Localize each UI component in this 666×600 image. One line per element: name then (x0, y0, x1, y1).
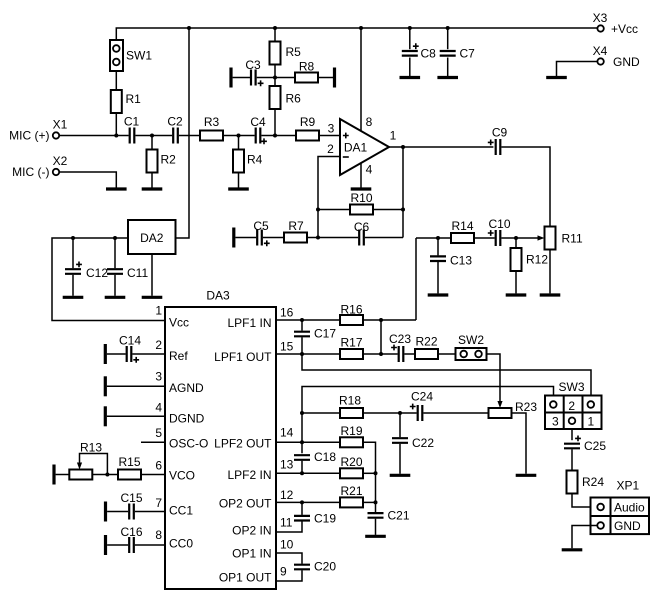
svg-text:OSC-O: OSC-O (169, 437, 208, 451)
wire (363, 442, 376, 512)
voltage regulator DA2 (128, 220, 176, 254)
svg-text:OP2 OUT: OP2 OUT (219, 497, 272, 511)
resistor R19 (340, 424, 363, 448)
junction (300, 318, 304, 322)
DA3 pin 9 label (219, 565, 287, 585)
svg-text:GND: GND (613, 55, 640, 69)
DA1 pin 1 wire (389, 129, 493, 148)
wire DA2 output (52, 238, 165, 321)
svg-text:LPF2 IN: LPF2 IN (227, 468, 271, 482)
resistor R20 (340, 455, 363, 478)
wire (238, 173, 240, 189)
junction (398, 411, 402, 415)
wire (233, 77, 250, 79)
capacitor C10 (488, 217, 511, 246)
resistor R14 (451, 219, 474, 243)
DA3 pin 15 label (214, 340, 294, 365)
svg-text:C24: C24 (411, 390, 433, 404)
ground (506, 293, 527, 296)
wire (365, 237, 403, 239)
svg-text:R12: R12 (526, 253, 548, 267)
R23 wiper arrow (497, 401, 502, 408)
capacitor C17 (294, 327, 336, 341)
resistor R2 (147, 150, 177, 173)
svg-text:GND: GND (614, 519, 641, 533)
svg-text:R2: R2 (161, 153, 177, 167)
wire (318, 209, 350, 211)
resistor R24 (567, 471, 605, 494)
wire (363, 472, 376, 474)
svg-text:VCO: VCO (169, 468, 195, 482)
svg-text:C12: C12 (86, 266, 108, 280)
DA1 pin 2 wire (318, 142, 340, 238)
svg-text:3: 3 (155, 370, 162, 384)
junction (113, 236, 117, 240)
svg-text:+Vcc: +Vcc (611, 22, 638, 36)
svg-text:R15: R15 (118, 455, 140, 469)
resistor R8 (295, 60, 318, 83)
svg-text:2: 2 (155, 338, 162, 352)
wire (263, 237, 284, 239)
capacitor C5 (253, 219, 269, 246)
svg-text:R16: R16 (340, 303, 362, 317)
wire (380, 320, 382, 354)
junction (187, 26, 191, 30)
junction (105, 473, 109, 477)
svg-text:R7: R7 (288, 219, 304, 233)
DA1 pin 4 (361, 163, 373, 189)
wire (399, 413, 401, 437)
terminal bar (104, 535, 107, 555)
capacitor C11 (107, 266, 148, 280)
wire DA2 input (176, 28, 190, 238)
capacitor C25 (564, 436, 606, 454)
DA3 pin 10 label (232, 538, 294, 561)
ground (562, 548, 583, 551)
wire (56, 474, 70, 476)
wire (261, 135, 296, 137)
wire (363, 353, 398, 355)
wire (549, 250, 551, 294)
resistor R9 (296, 115, 319, 141)
wire (363, 412, 417, 414)
svg-text:13: 13 (280, 457, 294, 471)
switch SW2 (456, 333, 487, 360)
svg-text:R11: R11 (562, 232, 583, 246)
svg-text:Vcc: Vcc (169, 315, 189, 329)
svg-text:C22: C22 (412, 436, 434, 450)
svg-text:CC1: CC1 (169, 504, 193, 518)
terminal bar (104, 344, 107, 364)
ground (142, 187, 163, 190)
capacitor C4 (250, 115, 267, 144)
wire (132, 353, 165, 355)
capacitor C2 (167, 115, 183, 144)
svg-text:LPF1 OUT: LPF1 OUT (214, 350, 272, 364)
wire (409, 28, 411, 49)
svg-text:C14: C14 (119, 334, 141, 348)
svg-text:SW3: SW3 (558, 380, 584, 394)
ground (400, 76, 421, 79)
terminal X3 +Vcc (593, 11, 638, 36)
capacitor C20 (294, 559, 336, 573)
svg-text:R13: R13 (80, 441, 102, 455)
wire x=403 vertical (402, 147, 404, 238)
svg-text:X4: X4 (593, 44, 608, 58)
svg-text:4: 4 (366, 163, 373, 177)
svg-text:5: 5 (155, 426, 162, 440)
wire (571, 429, 573, 440)
potentiometer R11 (516, 227, 583, 250)
wire (151, 136, 153, 150)
svg-text:4: 4 (155, 400, 162, 414)
wire (135, 511, 165, 513)
capacitor C19 (294, 512, 336, 526)
wire (274, 65, 276, 87)
wire (515, 238, 517, 248)
op-amp DA1 (340, 119, 389, 175)
svg-text:9: 9 (280, 565, 287, 579)
potentiometer R13 (69, 441, 107, 480)
junction (401, 208, 405, 212)
junction (114, 134, 118, 138)
resistor R1 (111, 90, 141, 113)
wire (557, 62, 598, 77)
svg-text:6: 6 (155, 458, 162, 472)
DA3 pin 4 label (155, 400, 204, 425)
DA3 pin 1 label (155, 304, 189, 330)
capacitor C1 (124, 115, 140, 144)
wire (318, 77, 333, 79)
IC DA3 box (165, 289, 276, 590)
ground (63, 296, 84, 299)
DA1 pin 3 label (328, 122, 335, 136)
ground (142, 296, 163, 299)
svg-text:MIC (-): MIC (-) (12, 165, 49, 179)
junction (300, 411, 304, 415)
wire (276, 501, 340, 503)
svg-text:R1: R1 (126, 92, 142, 106)
ground (228, 187, 249, 190)
junction (436, 236, 440, 240)
svg-text:C5: C5 (253, 219, 269, 233)
wire (404, 353, 415, 355)
junction (273, 76, 277, 80)
svg-text:C13: C13 (450, 254, 472, 268)
resistor R10 (350, 191, 373, 215)
terminal bar (229, 68, 232, 88)
junction (514, 236, 518, 240)
svg-text:14: 14 (280, 426, 294, 440)
svg-text:C2: C2 (167, 115, 183, 129)
svg-text:C3: C3 (245, 58, 261, 72)
svg-text:1: 1 (587, 414, 594, 428)
svg-text:12: 12 (280, 488, 294, 502)
wire (276, 522, 302, 533)
wire (276, 353, 340, 355)
svg-text:C25: C25 (584, 439, 606, 453)
svg-text:DA3: DA3 (206, 289, 230, 303)
svg-text:SW2: SW2 (458, 333, 484, 347)
svg-text:15: 15 (280, 340, 294, 354)
ground (516, 474, 537, 477)
junction (316, 236, 320, 240)
ground (546, 76, 567, 79)
wire SW2 to R23 wiper (487, 354, 501, 402)
wire (501, 147, 550, 227)
DA1 pin 8 (361, 28, 373, 131)
svg-text:X2: X2 (53, 154, 68, 168)
svg-text:R23: R23 (515, 400, 537, 414)
junction (273, 26, 277, 30)
wire (375, 519, 377, 535)
terminal bar (104, 502, 107, 522)
svg-text:R24: R24 (582, 475, 604, 489)
wire (276, 319, 340, 321)
wire (141, 441, 165, 443)
wire (107, 385, 165, 387)
DA3 pin 6 label (155, 458, 195, 482)
wire (107, 544, 128, 546)
wire (135, 544, 165, 546)
DA3 pin 11 label (232, 515, 293, 537)
capacitor C13 (430, 254, 472, 268)
svg-text:3: 3 (552, 414, 559, 428)
wire (301, 461, 303, 474)
svg-text:LPF2 OUT: LPF2 OUT (214, 436, 272, 450)
capacitor C12 (65, 262, 108, 281)
capacitor C21 (368, 509, 410, 523)
resistor R6 (270, 86, 302, 109)
DA3 pin 7 label (155, 496, 193, 518)
capacitor C18 (294, 450, 336, 464)
wire (223, 135, 255, 137)
terminal bar (232, 228, 235, 248)
wire (115, 71, 117, 90)
terminal bar (104, 376, 107, 396)
ground (365, 535, 386, 538)
switch SW1 (110, 40, 152, 71)
svg-text:R6: R6 (286, 92, 302, 106)
capacitor C23 (389, 332, 411, 362)
wire (274, 28, 276, 42)
resistor R16 (340, 303, 363, 326)
resistor R17 (340, 336, 363, 360)
svg-text:C6: C6 (354, 220, 370, 234)
capacitor C8 (402, 43, 436, 60)
resistor R21 (340, 484, 363, 507)
svg-text:X3: X3 (593, 11, 608, 25)
DA3 pin 8 label (155, 528, 193, 551)
potentiometer R23 (489, 400, 538, 418)
terminal X4 GND (593, 44, 640, 69)
wire (301, 502, 303, 515)
wire (141, 474, 165, 476)
wire (515, 271, 517, 293)
svg-text:11: 11 (280, 515, 293, 529)
svg-text:Ref: Ref (169, 349, 188, 363)
wire (423, 412, 488, 414)
svg-text:C20: C20 (314, 559, 336, 573)
wire (276, 472, 340, 474)
svg-text:XP1: XP1 (617, 479, 640, 493)
svg-text:8: 8 (155, 528, 162, 542)
DA3 pin 5 label (155, 426, 208, 451)
resistor R4 (233, 150, 263, 173)
svg-text:LPF1 IN: LPF1 IN (227, 316, 271, 330)
resistor R12 (511, 248, 549, 271)
svg-text:DGND: DGND (169, 412, 205, 426)
wire (399, 444, 401, 474)
capacitor C9 (488, 126, 508, 156)
junction (150, 134, 154, 138)
svg-text:C11: C11 (127, 266, 148, 280)
ground (351, 187, 372, 190)
capacitor C3 (245, 58, 263, 86)
wire (501, 237, 516, 239)
wire (107, 353, 126, 355)
wire (301, 320, 303, 331)
wire (276, 553, 302, 564)
DA3 pin 12 label (219, 488, 294, 511)
junction (300, 440, 304, 444)
wire (235, 237, 256, 239)
wire (438, 353, 456, 355)
wire x=416 vertical (415, 238, 417, 320)
wire (179, 135, 200, 137)
wire LPF1 OUT to SW3 (302, 354, 591, 396)
junction (237, 134, 241, 138)
junction (374, 471, 378, 475)
wire (307, 237, 358, 239)
wire LPF2 OUT to SW3 (302, 387, 554, 454)
wire (319, 135, 340, 137)
ground (428, 293, 449, 296)
wire (107, 415, 165, 417)
wire +Vcc top rail (116, 28, 597, 40)
junction (374, 500, 378, 504)
wire (276, 441, 340, 443)
wire (107, 511, 128, 513)
ground (106, 187, 127, 190)
svg-text:R19: R19 (340, 424, 362, 438)
svg-text:2: 2 (568, 399, 575, 413)
wire (59, 172, 116, 188)
svg-text:R4: R4 (247, 153, 263, 167)
svg-text:AGND: AGND (169, 381, 204, 395)
wire (72, 275, 74, 296)
svg-text:7: 7 (155, 496, 162, 510)
wire (59, 135, 128, 137)
wire (135, 135, 172, 137)
ground (437, 76, 458, 79)
svg-text:C23: C23 (389, 332, 411, 346)
DA3 pin 3 label (155, 370, 204, 396)
wire (373, 209, 403, 211)
svg-text:C21: C21 (388, 509, 410, 523)
svg-text:R14: R14 (451, 219, 473, 233)
junction (446, 26, 450, 30)
capacitor C22 (392, 436, 434, 450)
junction (71, 236, 75, 240)
wire (447, 58, 449, 77)
svg-text:C10: C10 (488, 217, 510, 231)
wire (409, 58, 411, 77)
resistor R7 (284, 219, 307, 243)
resistor R18 (339, 394, 363, 419)
svg-text:16: 16 (280, 306, 294, 320)
svg-text:R9: R9 (300, 115, 316, 129)
wire (572, 526, 597, 549)
resistor R5 (270, 42, 302, 65)
wire (275, 77, 295, 79)
svg-text:C1: C1 (124, 115, 140, 129)
wire (512, 413, 527, 474)
svg-text:C15: C15 (120, 491, 142, 505)
svg-text:MIC (+): MIC (+) (9, 129, 49, 143)
wire (363, 319, 416, 321)
wire (151, 254, 153, 296)
svg-text:R5: R5 (286, 45, 302, 59)
capacitor C16 (120, 525, 142, 553)
wire (301, 337, 303, 354)
connector XP1 (591, 479, 650, 535)
svg-text:2: 2 (327, 142, 334, 156)
wire (474, 237, 495, 239)
wire (447, 28, 449, 49)
svg-text:R18: R18 (339, 394, 361, 408)
capacitor C24 (410, 390, 434, 422)
terminal X2 MIC(-) (12, 154, 67, 179)
svg-text:C16: C16 (120, 525, 142, 539)
DA3 pin 2 label (155, 338, 188, 363)
svg-text:R21: R21 (340, 484, 362, 498)
svg-text:R17: R17 (340, 336, 362, 350)
junction (300, 500, 304, 504)
wire (72, 238, 74, 268)
ground (390, 474, 411, 477)
junction (401, 145, 405, 149)
junction (300, 471, 304, 475)
svg-text:R22: R22 (415, 335, 437, 349)
DA3 pin 13 label (227, 457, 293, 482)
svg-text:C18: C18 (314, 450, 336, 464)
wire (276, 570, 302, 581)
svg-text:C4: C4 (250, 115, 266, 129)
svg-text:3: 3 (328, 122, 335, 136)
svg-text:R8: R8 (299, 60, 315, 74)
terminal bar (104, 406, 107, 426)
terminal bar (52, 465, 55, 485)
capacitor C15 (120, 491, 142, 520)
resistor R15 (118, 455, 141, 480)
svg-text:SW1: SW1 (126, 49, 152, 63)
svg-text:OP1 OUT: OP1 OUT (219, 571, 272, 585)
ground (105, 296, 126, 299)
junction (379, 352, 383, 356)
wire (92, 474, 118, 476)
capacitor C6 (354, 220, 370, 246)
DA3 pin 16 label (227, 306, 293, 331)
resistor R22 (415, 335, 438, 360)
wire (572, 494, 597, 508)
junction (359, 26, 363, 30)
svg-text:R10: R10 (350, 191, 372, 205)
junction (300, 352, 304, 356)
terminal X1 MIC(+) (9, 118, 68, 143)
resistor R3 (200, 115, 223, 141)
junction (273, 134, 277, 138)
